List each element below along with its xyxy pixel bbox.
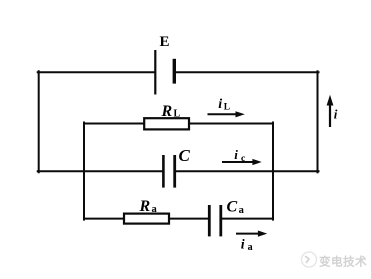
watermark logo <box>302 252 317 267</box>
wire RL-row left segment <box>84 123 145 125</box>
wire RL-row right segment <box>189 123 274 125</box>
wire Ra-row right segment <box>222 218 273 220</box>
svg-text:C: C <box>227 198 238 215</box>
resistor RL <box>144 118 189 129</box>
svg-text:L: L <box>174 109 181 120</box>
svg-text:a: a <box>152 204 158 215</box>
svg-text:C: C <box>179 146 191 165</box>
svg-text:变电技术: 变电技术 <box>319 254 367 268</box>
wire C-row right segment <box>176 170 319 172</box>
current arrow iL <box>208 97 245 118</box>
wire C-row left segment <box>38 170 163 172</box>
wire top rail left segment <box>38 71 155 73</box>
svg-text:i: i <box>218 97 222 112</box>
svg-text:R: R <box>161 103 173 120</box>
wire left inner vertical <box>83 123 85 220</box>
svg-text:i: i <box>234 147 238 162</box>
current arrow ic <box>222 147 262 165</box>
svg-text:a: a <box>248 242 253 253</box>
current arrow ia <box>236 231 267 254</box>
wire left outer vertical <box>38 71 40 172</box>
resistor Ra <box>124 214 169 224</box>
svg-text:i: i <box>334 106 338 121</box>
svg-text:R: R <box>139 198 151 215</box>
wire top rail right segment <box>174 71 318 73</box>
svg-text:c: c <box>241 154 245 164</box>
battery E <box>155 50 174 95</box>
svg-text:i: i <box>241 237 245 252</box>
capacitor Ca <box>209 205 221 236</box>
wire right outer vertical <box>317 71 319 172</box>
wire Ra-row left segment <box>84 218 125 220</box>
svg-text:a: a <box>239 205 245 216</box>
capacitor C <box>163 155 174 188</box>
wire Ra-row middle segment <box>169 218 209 220</box>
svg-text:E: E <box>160 34 170 50</box>
current arrow i (total) <box>327 95 338 127</box>
wire right inner vertical <box>272 123 274 220</box>
svg-text:L: L <box>224 102 230 112</box>
